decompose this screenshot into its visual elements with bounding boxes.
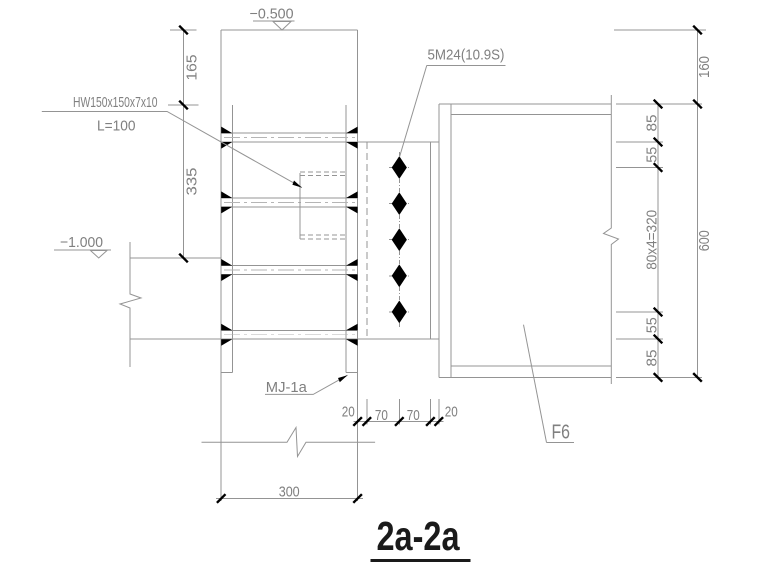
bolt 1 [389,156,410,179]
column top edge [221,29,357,31]
wall edge with break [120,242,141,367]
tick left dim bottom [179,254,188,263]
svg-text:5M24(10.9S): 5M24(10.9S) [428,47,505,64]
svg-text:300: 300 [279,483,300,500]
svg-text:−1.000: −1.000 [60,234,103,251]
beam bottom outer [439,376,612,378]
weld triangle S4 right upper [346,324,358,331]
left flange bottom cap [221,372,232,374]
stiffener S3 centerline [224,269,355,271]
dim line [183,30,185,259]
svg-text:80x4=320: 80x4=320 [644,210,661,270]
bolt 2 [389,192,410,215]
right flange bottom cap [346,372,358,374]
svg-text:600: 600 [696,230,713,251]
svg-text:L=100: L=100 [97,117,136,134]
stiffener S2 centerline [224,201,355,203]
svg-text:85: 85 [644,350,661,367]
column left flange inner [231,105,233,373]
column right flange outer (also extension to dims) [357,30,359,501]
extension top at column level [614,29,706,31]
leader arrow [338,375,348,382]
beam bottom inner [451,365,612,367]
weld triangle S4 left lower [221,339,232,346]
weld triangle S3 right upper [346,259,358,266]
extension at bracket bottom [616,338,663,340]
weld triangle S3 left upper [221,259,232,266]
extension stub mid [168,104,199,106]
weld triangle S2 right upper [346,191,358,198]
extension at beam bottom [616,376,702,378]
bolt 5 [389,301,410,324]
svg-text:335: 335 [184,168,201,196]
svg-text:70: 70 [375,407,388,424]
extension stubs [366,399,368,425]
svg-text:−0.500: −0.500 [250,6,294,23]
svg-text:55: 55 [644,147,661,163]
leader arrow [292,181,302,188]
level -1.000 line [130,257,221,259]
svg-text:20: 20 [342,404,355,421]
extension stub top [170,29,197,31]
svg-text:20: 20 [445,404,458,421]
bolt 3 [389,228,410,251]
column left flange outer (also extension to 300 dim) [220,30,222,501]
svg-text:70: 70 [407,407,420,424]
weld triangle S1 right upper [346,127,358,134]
beam top inner [451,114,612,116]
stiffener S1 centerline [224,137,355,139]
extension at beam top [616,103,702,105]
weld triangle S1 left upper [221,127,232,134]
svg-text:2a-2a: 2a-2a [377,513,461,559]
ticks dim 300 [217,494,226,503]
weld triangle S4 left upper [221,324,232,331]
extension at first bolt row [616,167,663,169]
weld triangle S1 right lower [346,142,358,149]
weld triangle S2 left upper [221,191,232,198]
weld triangle S2 left lower [221,207,232,214]
beam right end plate with break [604,95,619,384]
weld triangle S3 left lower [221,274,232,281]
ticks outer right dim [693,26,702,35]
beam left end plate inner [450,104,452,377]
weld triangle S3 right lower [346,274,358,281]
tick left dim top [179,26,188,35]
tick left dim mid [179,101,188,110]
bracket hidden edge (dashed) [366,142,368,339]
svg-text:HW150x150x7x10: HW150x150x7x10 [73,94,158,111]
svg-text:85: 85 [644,115,661,132]
outer dim line [697,30,699,377]
ticks bottom dim 20/70/70/20 [353,417,362,426]
svg-text:160: 160 [696,56,713,78]
svg-text:MJ-1a: MJ-1a [266,379,308,396]
extension at last bolt row [616,311,663,313]
beam left end plate outer [438,104,440,377]
svg-text:165: 165 [184,55,201,81]
weld triangle S2 right lower [346,207,358,214]
bracket end plate [429,142,431,339]
bolt centerline [398,152,400,327]
beam top outer [439,103,612,105]
ticks inner right dim [654,100,663,109]
column right flange inner [345,105,347,373]
bolt 4 [389,264,410,287]
weld triangle S1 left lower [221,142,232,149]
stiffener S4 centerline [224,334,355,336]
svg-text:55: 55 [644,317,661,333]
weld triangle S4 right lower [346,339,358,346]
dim line [354,421,444,423]
inner dim line [657,104,659,377]
extension at bracket top [616,141,663,143]
svg-text:F6: F6 [552,422,571,444]
